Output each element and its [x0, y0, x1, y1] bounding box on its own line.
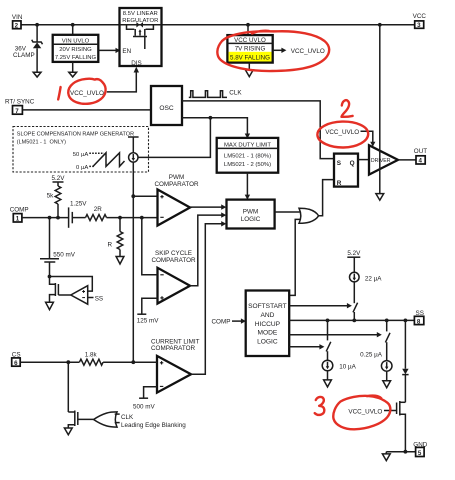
svg-text:5: 5	[418, 450, 422, 457]
svg-text:DRIVER: DRIVER	[371, 158, 391, 164]
svg-text:AND: AND	[260, 312, 274, 319]
svg-text:R: R	[107, 241, 112, 248]
svg-text:(LM5021 - 1 ONLY): (LM5021 - 1 ONLY)	[17, 140, 66, 146]
svg-text:VCC_UVLO: VCC_UVLO	[325, 129, 359, 136]
svg-text:Q: Q	[350, 160, 355, 167]
svg-text:PWM: PWM	[169, 174, 184, 181]
svg-text:5.2V: 5.2V	[347, 250, 361, 257]
svg-text:VCC UVLO: VCC UVLO	[234, 37, 266, 44]
svg-text:R: R	[337, 180, 342, 187]
svg-text:4: 4	[419, 158, 423, 165]
svg-text:2: 2	[15, 22, 19, 29]
svg-text:DIS: DIS	[131, 60, 142, 67]
svg-text:10 µA: 10 µA	[339, 363, 356, 370]
svg-text:LOGIC: LOGIC	[241, 216, 261, 223]
svg-text:3: 3	[417, 22, 421, 29]
svg-text:SOFTSTART: SOFTSTART	[248, 303, 287, 310]
svg-text:125 mV: 125 mV	[137, 317, 160, 324]
svg-text:COMPARATOR: COMPARATOR	[151, 257, 196, 264]
svg-text:500 mV: 500 mV	[133, 404, 156, 411]
svg-text:550 mV: 550 mV	[53, 252, 76, 259]
svg-text:1.25V: 1.25V	[70, 200, 87, 207]
svg-text:1: 1	[16, 216, 20, 223]
svg-text:CLK: CLK	[121, 414, 134, 421]
svg-text:8.5V LINEAR: 8.5V LINEAR	[123, 11, 158, 17]
svg-text:VCC: VCC	[413, 13, 427, 20]
svg-text:VCC_UVLO: VCC_UVLO	[70, 90, 104, 97]
svg-text:6: 6	[14, 360, 18, 367]
svg-text:HICCUP: HICCUP	[255, 321, 281, 328]
svg-text:50 µA: 50 µA	[73, 152, 89, 158]
svg-text:RT/ SYNC: RT/ SYNC	[5, 98, 35, 105]
svg-text:CLAMP: CLAMP	[13, 52, 35, 59]
svg-text:VCC_UVLO: VCC_UVLO	[291, 48, 325, 55]
svg-text:Leading Edge Blanking: Leading Edge Blanking	[121, 422, 186, 429]
svg-text:OUT: OUT	[414, 148, 427, 155]
svg-text:7: 7	[15, 108, 19, 115]
svg-text:5k: 5k	[47, 193, 55, 200]
svg-text:OSC: OSC	[159, 105, 174, 112]
svg-text:REGULATOR: REGULATOR	[122, 18, 158, 24]
svg-text:VCC_UVLO: VCC_UVLO	[348, 408, 382, 415]
svg-text:MODE: MODE	[258, 330, 278, 337]
svg-text:VIN UVLO: VIN UVLO	[62, 38, 90, 44]
svg-text:MAX DUTY LIMIT: MAX DUTY LIMIT	[224, 142, 271, 148]
svg-text:1.8k: 1.8k	[85, 352, 98, 359]
svg-text:COMPARATOR: COMPARATOR	[154, 181, 199, 188]
svg-text:PWM: PWM	[243, 209, 258, 216]
svg-text:0 µA: 0 µA	[76, 165, 88, 171]
svg-text:5.8V FALLING: 5.8V FALLING	[230, 55, 270, 62]
svg-text:7.25V FALLING: 7.25V FALLING	[55, 55, 97, 61]
svg-text:CLK: CLK	[229, 89, 242, 96]
svg-text:7V RISING: 7V RISING	[235, 45, 266, 52]
svg-text:SLOPE COMPENSATION RAMP GENERA: SLOPE COMPENSATION RAMP GENERATOR	[17, 131, 134, 137]
svg-text:20V RISING: 20V RISING	[59, 47, 92, 53]
svg-text:2R: 2R	[94, 206, 103, 213]
svg-text:8: 8	[417, 318, 421, 325]
svg-text:0.25 µA: 0.25 µA	[360, 351, 383, 358]
svg-text:VIN: VIN	[12, 14, 23, 21]
svg-text:SS: SS	[95, 295, 103, 302]
svg-text:5.2V: 5.2V	[52, 175, 66, 182]
svg-text:LM5021 - 1 (80%): LM5021 - 1 (80%)	[224, 153, 271, 159]
svg-text:COMP: COMP	[10, 206, 29, 213]
svg-text:EN: EN	[122, 48, 131, 55]
svg-text:LOGIC: LOGIC	[257, 339, 278, 346]
svg-text:COMP: COMP	[212, 319, 231, 326]
svg-text:22 µA: 22 µA	[365, 276, 382, 283]
svg-text:S: S	[337, 160, 342, 167]
svg-text:LM5021 - 2 (50%): LM5021 - 2 (50%)	[224, 162, 271, 168]
svg-text:COMPARATOR: COMPARATOR	[151, 345, 196, 352]
svg-text:SKIP CYCLE: SKIP CYCLE	[155, 250, 192, 257]
